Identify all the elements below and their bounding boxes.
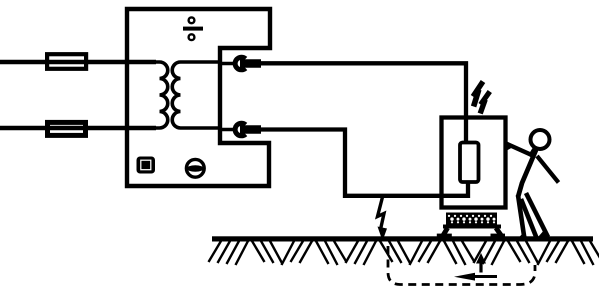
person: head [531,130,550,149]
stand left foot pad [437,234,452,239]
earth hatching [209,241,599,265]
breakdown bolt to earth with arrowhead [378,197,388,241]
stand left leg [442,228,448,238]
class II (double-square) symbol [137,157,156,174]
dashed earth-current loop [388,246,535,285]
person: left foot [516,232,529,241]
heating element E1 [460,143,479,183]
person: right arm [537,156,559,183]
appliance body [442,118,506,208]
wire from X1 to appliance (top run) [260,63,466,142]
person: hand on appliance [505,140,513,152]
transformer T1 secondary winding [172,62,218,128]
wire L1 (top mains lead) [0,60,156,64]
person: shoulder [531,149,536,157]
person: right foot [535,229,552,241]
wire from X2 to appliance (bottom run) [260,130,468,196]
spark/fault bolt at appliance top, right prong [480,92,490,114]
appliance stand (cross-hatched base) [437,213,505,239]
socket/plug X2 [235,123,261,136]
enclosure box (isolating transformer unit) [127,9,270,186]
person: right leg [521,199,537,239]
fuse F1 [47,54,86,69]
transformer T1 primary winding [150,62,168,128]
current arrow pointing left [454,273,497,281]
wire L2 (bottom mains lead) [0,126,156,130]
person: left leg [518,195,525,239]
stand right foot pad [491,234,506,239]
stand right leg [496,228,503,238]
person: rear leg stroke [526,193,548,237]
socket/plug X2 stub wire [218,128,236,132]
isolating-transformer symbol (circle-bar-circle) [183,17,203,40]
fuse F2 [48,122,86,135]
socket/plug X1 stub wire [218,62,236,66]
socket/plug X1 [235,57,261,70]
person: arm touching appliance [506,144,535,157]
person: torso [518,150,536,197]
current arrow up into stand [476,253,486,273]
short-circuit-proof symbol (circle with bar) [186,159,204,177]
ground line [212,236,593,241]
spark/fault bolt at appliance top, left prong [473,82,483,107]
